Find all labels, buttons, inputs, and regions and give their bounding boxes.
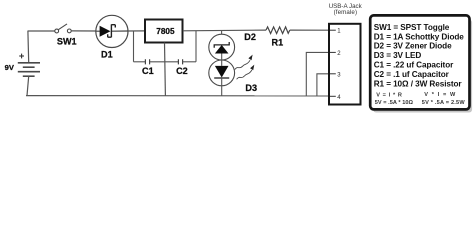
svg-text:D1 = 1A Schottky Diode: D1 = 1A Schottky Diode (374, 32, 465, 41)
svg-text:(female): (female) (334, 9, 358, 16)
D1 internal wire (96, 30, 128, 32)
USB pin ticks (330, 30, 336, 96)
svg-text:7805: 7805 (156, 27, 175, 36)
wire: pin3 to ground (317, 74, 329, 96)
D1 triangle (anode) (100, 26, 111, 37)
wire: SW1 to D1 (71, 30, 96, 32)
D3 triangle pointing down (215, 66, 229, 78)
wire: D1 to 7805 input (128, 30, 145, 32)
svg-text:C1 = .22 uf Capacitor: C1 = .22 uf Capacitor (374, 60, 454, 69)
wire: C2 right segment (183, 61, 196, 63)
diode D1 (1A Schottky): circle (96, 15, 128, 47)
wire: bottom rail (26, 95, 329, 97)
wire: D3 to bottom rail (221, 78, 223, 96)
wire: 7805 ground pin down to bottom rail (164, 43, 167, 96)
svg-text:V * I = W: V * I = W (424, 92, 456, 98)
regulator U1 7805 box (145, 20, 183, 43)
svg-text:C1: C1 (142, 66, 154, 76)
D3 cathode bar (214, 77, 229, 79)
svg-text:9V: 9V (5, 63, 15, 72)
legend formulas (375, 92, 466, 106)
wire: C1 left segment (134, 61, 146, 63)
wire: battery negative vertical (27, 76, 29, 95)
legend text (374, 23, 465, 89)
D2 triangle pointing up (215, 45, 229, 54)
D3 LED emission arrows (235, 60, 252, 79)
svg-text:D3: D3 (245, 83, 257, 93)
svg-text:D1: D1 (101, 50, 113, 60)
capacitor C1 plates (145, 59, 149, 64)
node: input junction stub down to C1 (133, 31, 135, 62)
legend box (370, 15, 472, 112)
wire: R1 to USB pin1 (290, 29, 329, 31)
wire: pin2 to ground (306, 52, 329, 96)
wire: stub rail to D2 (221, 30, 223, 34)
svg-text:SW1 = SPST Toggle: SW1 = SPST Toggle (374, 23, 450, 32)
svg-text:D3 = 3V LED: D3 = 3V LED (374, 51, 422, 60)
svg-text:R1: R1 (272, 37, 284, 47)
svg-text:V = I * R: V = I * R (376, 92, 402, 98)
capacitor C2 plates (178, 59, 182, 64)
svg-text:C2: C2 (176, 66, 188, 76)
svg-text:C2 = .1 uf Capacitor: C2 = .1 uf Capacitor (374, 70, 450, 79)
node: output junction stub down to C2 (195, 31, 197, 62)
D1 schottky cathode bar (108, 24, 116, 37)
battery plus sign (19, 54, 24, 59)
USB-A jack box J1 (329, 24, 361, 105)
LED D3: circle (209, 60, 235, 86)
D2 zener bar with bent ends (214, 42, 229, 48)
resistor R1 zigzag (266, 27, 290, 34)
battery 9V: plates (18, 63, 40, 76)
wire: top rail left segment (battery + to SW1) (28, 30, 56, 32)
zener D2: circle (209, 34, 235, 60)
switch SW1 (55, 24, 71, 33)
svg-text:5V = .5A * 10Ω: 5V = .5A * 10Ω (375, 100, 414, 106)
wire: D2 to D3 (221, 54, 223, 66)
wire: C1 to center (150, 61, 179, 63)
svg-text:D2 = 3V Zener Diode: D2 = 3V Zener Diode (374, 42, 452, 51)
svg-text:5V * .5A = 2.5W: 5V * .5A = 2.5W (422, 100, 466, 106)
wire: battery positive vertical (27, 31, 30, 63)
svg-text:R1 = 10Ω / 3W Resistor: R1 = 10Ω / 3W Resistor (374, 80, 463, 89)
wire: 7805 output to rail right (183, 29, 266, 32)
svg-text:SW1: SW1 (57, 37, 77, 47)
svg-text:D2: D2 (244, 32, 256, 42)
